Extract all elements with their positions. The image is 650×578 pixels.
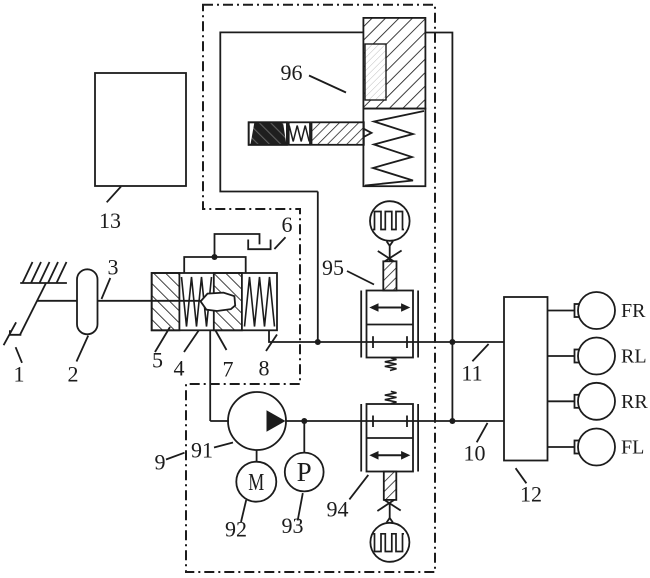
svg-text:91: 91 [191, 438, 213, 463]
junction dot (chamber/reservoir) [212, 254, 218, 260]
chamber above cylinder [184, 257, 246, 273]
junction dot at sensor tee [301, 418, 307, 424]
motor 92 link [256, 450, 258, 462]
svg-text:11: 11 [461, 361, 482, 386]
svg-text:3: 3 [108, 255, 119, 280]
wheel RL [548, 338, 647, 375]
valve 95 body [361, 291, 418, 358]
svg-text:7: 7 [223, 357, 234, 382]
svg-text:12: 12 [520, 482, 542, 507]
label 1 [14, 347, 25, 386]
reservoir 6 cup [248, 240, 270, 250]
sensor 93 link [303, 421, 305, 453]
valve 96 hatched block [363, 18, 425, 109]
HCU block 12 [504, 297, 548, 461]
damper capsule 2 [77, 269, 98, 334]
spring (left) in cylinder [182, 277, 212, 327]
valve 96 housing outline [220, 32, 363, 191]
stem 94 (hatched) [384, 472, 397, 500]
wheel RR [548, 383, 649, 420]
left gland 5 (hatched) [152, 273, 180, 330]
junction dot at main right line top [449, 339, 455, 345]
pressure sensor 93 [285, 453, 324, 492]
svg-text:RL: RL [621, 346, 647, 368]
signal circle 95 [370, 201, 410, 241]
valve 94 arrow [369, 451, 410, 460]
junction dot at line 10 tee [449, 418, 455, 424]
svg-text:FR: FR [621, 300, 646, 322]
valve 96 spring [365, 111, 424, 186]
label 95 [322, 255, 374, 285]
wheel FL [548, 429, 645, 466]
label 13 [99, 187, 121, 234]
svg-text:9: 9 [155, 450, 166, 475]
svg-text:96: 96 [281, 60, 303, 85]
svg-text:1: 1 [14, 362, 25, 387]
svg-text:2: 2 [68, 362, 79, 387]
svg-text:8: 8 [259, 356, 270, 381]
pushrod segment inside cylinder [152, 300, 201, 302]
svg-text:95: 95 [322, 255, 344, 280]
stem 95 (hatched) [383, 261, 396, 290]
svg-text:M: M [248, 470, 264, 496]
svg-text:FL: FL [621, 437, 644, 459]
valve 94 supply spring [385, 391, 397, 403]
svg-text:6: 6 [282, 212, 293, 237]
dash-dot enclosure boundary [186, 5, 435, 572]
svg-text:P: P [297, 457, 312, 487]
pump outlet pipe to line 10 [286, 420, 504, 422]
svg-text:94: 94 [327, 497, 349, 522]
svg-text:RR: RR [621, 391, 648, 413]
spring (right) in cylinder [245, 277, 275, 327]
valve 94 body [361, 404, 418, 472]
reservoir 6 pipe [215, 234, 260, 257]
labels 10 11 12 [464, 423, 488, 466]
svg-text:10: 10 [464, 441, 486, 466]
svg-text:5: 5 [152, 348, 163, 373]
label 6 [274, 212, 292, 249]
wire from 96 housing down to line 8 [317, 192, 319, 343]
valve 96 window [365, 44, 386, 100]
pushrod 3 [37, 300, 201, 302]
svg-text:92: 92 [225, 517, 247, 542]
valve 95 arrow [369, 303, 410, 312]
link circle to stem 95 [378, 241, 402, 261]
piston 7 (hatched) [214, 273, 242, 330]
needle of valve 96 [312, 122, 372, 145]
label 96 [281, 60, 347, 93]
label 3 [102, 255, 119, 300]
brake pedal lever 1 [4, 283, 47, 346]
pump 91 [228, 392, 286, 450]
pipe: cylinder right port to line 11 [269, 330, 504, 342]
label 2 [68, 336, 89, 387]
signal circle 94 [370, 523, 409, 562]
pump inlet elbow [210, 420, 229, 422]
svg-text:13: 13 [99, 208, 121, 233]
pipe: cylinder to pump [209, 330, 211, 421]
labels 9 91 92 93 [155, 450, 185, 475]
junction dot at 96 drop [315, 339, 321, 345]
label 94 [327, 475, 369, 522]
motor 92 [236, 462, 276, 502]
reservoir rectangle 13 [95, 73, 186, 186]
labels 5 4 7 8 [152, 327, 170, 373]
solenoid spring of 96 [289, 122, 310, 145]
link stem to circle 94 [377, 500, 400, 523]
poppet plug 4 [201, 293, 236, 311]
wheel FR [548, 292, 647, 329]
wire from 96 to main right line [425, 33, 452, 422]
svg-text:4: 4 [174, 356, 185, 381]
valve 96 spring box [363, 109, 425, 187]
solenoid armature (dark) of 96 [249, 122, 287, 145]
master cylinder body [152, 273, 277, 330]
svg-text:93: 93 [282, 513, 304, 538]
pedal mount wall [20, 262, 67, 283]
valve 95 return spring [385, 358, 397, 371]
